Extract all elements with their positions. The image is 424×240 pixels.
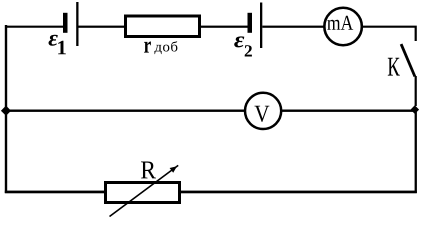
battery E1 negative plate — [63, 13, 68, 33]
wire top-left segment — [6, 26, 63, 28]
battery E1 positive plate — [76, 2, 78, 46]
wire mA to top-right corner — [362, 26, 417, 41]
resistor r_dob — [126, 16, 200, 37]
junction node right — [411, 105, 420, 114]
label E2 — [234, 36, 252, 56]
label r_dob — [144, 41, 177, 54]
battery E2 positive plate — [260, 3, 262, 49]
label E1 — [49, 35, 66, 55]
milliammeter mA — [324, 8, 362, 46]
switch K lower contact wire — [415, 76, 417, 106]
right rail lower wire — [415, 110, 417, 193]
switch K blade — [400, 44, 416, 78]
left rail wire — [5, 25, 7, 193]
battery E2 negative plate — [248, 13, 253, 33]
rheostat R box — [106, 183, 180, 203]
wire middle right segment — [282, 110, 415, 112]
wire E2 to mA — [262, 26, 324, 28]
wire bottom-left segment — [5, 191, 105, 194]
voltmeter V — [245, 93, 281, 129]
wire E1 to resistor — [79, 26, 125, 28]
junction node left — [1, 106, 11, 116]
label K — [388, 58, 400, 76]
wire resistor to E2 — [201, 26, 248, 28]
wire middle left segment — [6, 110, 244, 112]
rheostat R arrow — [110, 165, 179, 216]
label R — [141, 162, 156, 179]
wire bottom-right segment — [180, 191, 417, 194]
